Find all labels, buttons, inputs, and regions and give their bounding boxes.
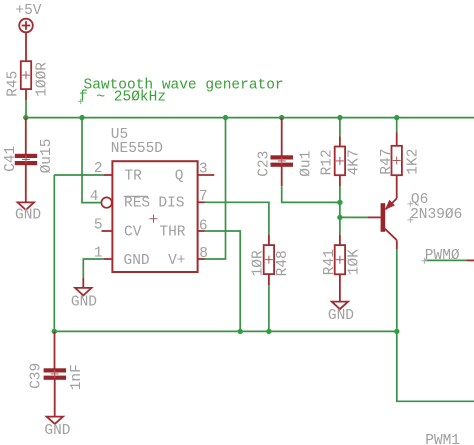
wire top rail to R12 bbox=[339, 118, 341, 137]
capacitor C23 bbox=[271, 118, 294, 187]
junction top rail / R45 / C41 bbox=[23, 115, 28, 120]
resistor R12 bbox=[335, 136, 345, 186]
svg-text:3: 3 bbox=[199, 162, 208, 178]
svg-text:DIS: DIS bbox=[158, 195, 184, 211]
origin cross U5 bbox=[150, 215, 158, 223]
svg-text:GND: GND bbox=[44, 423, 70, 439]
junction top rail / pin8 V+ wire bbox=[223, 115, 228, 120]
pin 2 TR stub bbox=[104, 174, 112, 176]
resistor R48 bbox=[264, 235, 274, 286]
wire RES net: top rail down to pin 4 bbox=[82, 118, 101, 203]
svg-text:1K2: 1K2 bbox=[405, 149, 421, 175]
wire pin 7 DIS to R48 bbox=[205, 202, 269, 234]
junction R12 bottom / C23 wire bbox=[337, 200, 342, 205]
junction top rail / R12 bbox=[337, 115, 342, 120]
svg-text:C39: C39 bbox=[29, 363, 45, 389]
svg-text:GND: GND bbox=[71, 295, 97, 311]
origin cross Q6 bbox=[407, 201, 413, 223]
pin 8 V+ stub bbox=[198, 258, 205, 260]
ground pin stub for IC ground bbox=[82, 278, 84, 288]
svg-text:TR: TR bbox=[124, 168, 142, 184]
svg-text:R12: R12 bbox=[319, 149, 335, 175]
svg-text:4K7: 4K7 bbox=[347, 149, 363, 175]
svg-text:R47: R47 bbox=[379, 149, 395, 175]
svg-text:R41: R41 bbox=[322, 249, 338, 275]
svg-text:R48: R48 bbox=[275, 250, 291, 276]
svg-text:NE555D: NE555D bbox=[111, 141, 163, 157]
pin 7 DIS stub bbox=[198, 201, 205, 203]
svg-text:1ØK: 1ØK bbox=[347, 249, 363, 275]
svg-text:Q: Q bbox=[175, 168, 184, 184]
wire R12 bottom through junctions down bbox=[339, 186, 341, 235]
junction bottom rail / collector wire bbox=[394, 329, 399, 334]
svg-text:PWM1: PWM1 bbox=[425, 433, 460, 445]
ground below C39 bbox=[47, 417, 63, 424]
wire base net to transistor bbox=[340, 216, 368, 218]
svg-text:6: 6 bbox=[199, 218, 208, 234]
pin 4 RES bubble bbox=[101, 197, 111, 207]
junction top rail / C23 bbox=[279, 115, 284, 120]
wire collector down to bottom rail and PWM1 bbox=[397, 249, 474, 401]
svg-text:5: 5 bbox=[94, 217, 103, 233]
pin stub at right edge PWM0 bbox=[466, 259, 474, 261]
svg-text:R45: R45 bbox=[6, 71, 22, 97]
svg-text:RES: RES bbox=[124, 195, 150, 211]
power +5V supply symbol bbox=[19, 19, 33, 62]
ground below C41 bbox=[18, 202, 34, 210]
pin 1 GND stub bbox=[104, 258, 112, 260]
svg-text:Øu15: Øu15 bbox=[39, 139, 55, 174]
wire left vertical to bottom rail bbox=[53, 175, 55, 331]
wire pin 1 to ground bbox=[83, 259, 104, 278]
capacitor C39 bbox=[44, 331, 67, 416]
svg-text:+5V: +5V bbox=[15, 3, 41, 19]
svg-text:1nF: 1nF bbox=[69, 364, 85, 390]
wire R48 bottom to bottom rail bbox=[268, 285, 270, 331]
origin cross note bbox=[78, 99, 83, 104]
junction top rail / RES wire bbox=[79, 115, 84, 120]
resistor R45 bbox=[21, 61, 31, 100]
ground below R41 bbox=[332, 302, 348, 310]
svg-text:1ØR: 1ØR bbox=[251, 250, 267, 276]
pin 3 Q stub (unconnected) bbox=[198, 174, 215, 176]
junction base wire bbox=[337, 215, 342, 220]
svg-text:THR: THR bbox=[159, 225, 185, 241]
wire top rail to R47 bbox=[396, 118, 398, 133]
resistor R41 bbox=[335, 235, 345, 302]
wire C23 bottom to R12 bottom bbox=[282, 186, 340, 202]
origin cross PWM0 bbox=[421, 258, 427, 264]
resistor R47 bbox=[392, 132, 402, 175]
wire pin 8 V+ up to top rail bbox=[205, 118, 226, 259]
wire PWM0 bbox=[424, 259, 466, 261]
junction bottom rail / left vertical / C39 bbox=[52, 329, 57, 334]
IC U5 NE555D timer bbox=[112, 161, 197, 272]
svg-text:2N39Ø6: 2N39Ø6 bbox=[410, 207, 462, 223]
pin 5 CV stub bbox=[102, 230, 113, 232]
junction bottom rail / R48 bbox=[266, 329, 271, 334]
svg-text:V+: V+ bbox=[168, 253, 185, 269]
svg-text:GND: GND bbox=[124, 253, 150, 269]
junction top rail / R47 bbox=[394, 115, 399, 120]
ground below pin 1 bbox=[75, 288, 91, 296]
svg-text:C41: C41 bbox=[3, 146, 19, 172]
transistor Q6 PNP bbox=[368, 175, 397, 249]
capacitor C41 bbox=[15, 118, 37, 203]
svg-text:GND: GND bbox=[328, 308, 354, 324]
wire top rail bbox=[26, 117, 474, 119]
wire pin 6 THR down to bottom rail bbox=[205, 231, 241, 331]
svg-text:CV: CV bbox=[124, 225, 142, 241]
svg-text:GND: GND bbox=[15, 208, 41, 224]
svg-text:1ØØR: 1ØØR bbox=[35, 62, 51, 97]
svg-text:C23: C23 bbox=[257, 151, 273, 177]
svg-text:PWMØ: PWMØ bbox=[425, 248, 460, 264]
svg-text:Q6: Q6 bbox=[411, 192, 428, 208]
junction bottom rail / THR wire bbox=[238, 329, 243, 334]
wire TR net: pin 2 to left vertical bbox=[54, 174, 104, 176]
wire R45 to top rail bbox=[25, 100, 27, 118]
svg-text:Øu1: Øu1 bbox=[298, 151, 314, 177]
svg-text:f ~ 25ØkHz: f ~ 25ØkHz bbox=[79, 90, 166, 106]
pin 6 THR stub bbox=[198, 230, 205, 232]
wire bottom rail bbox=[54, 330, 397, 332]
